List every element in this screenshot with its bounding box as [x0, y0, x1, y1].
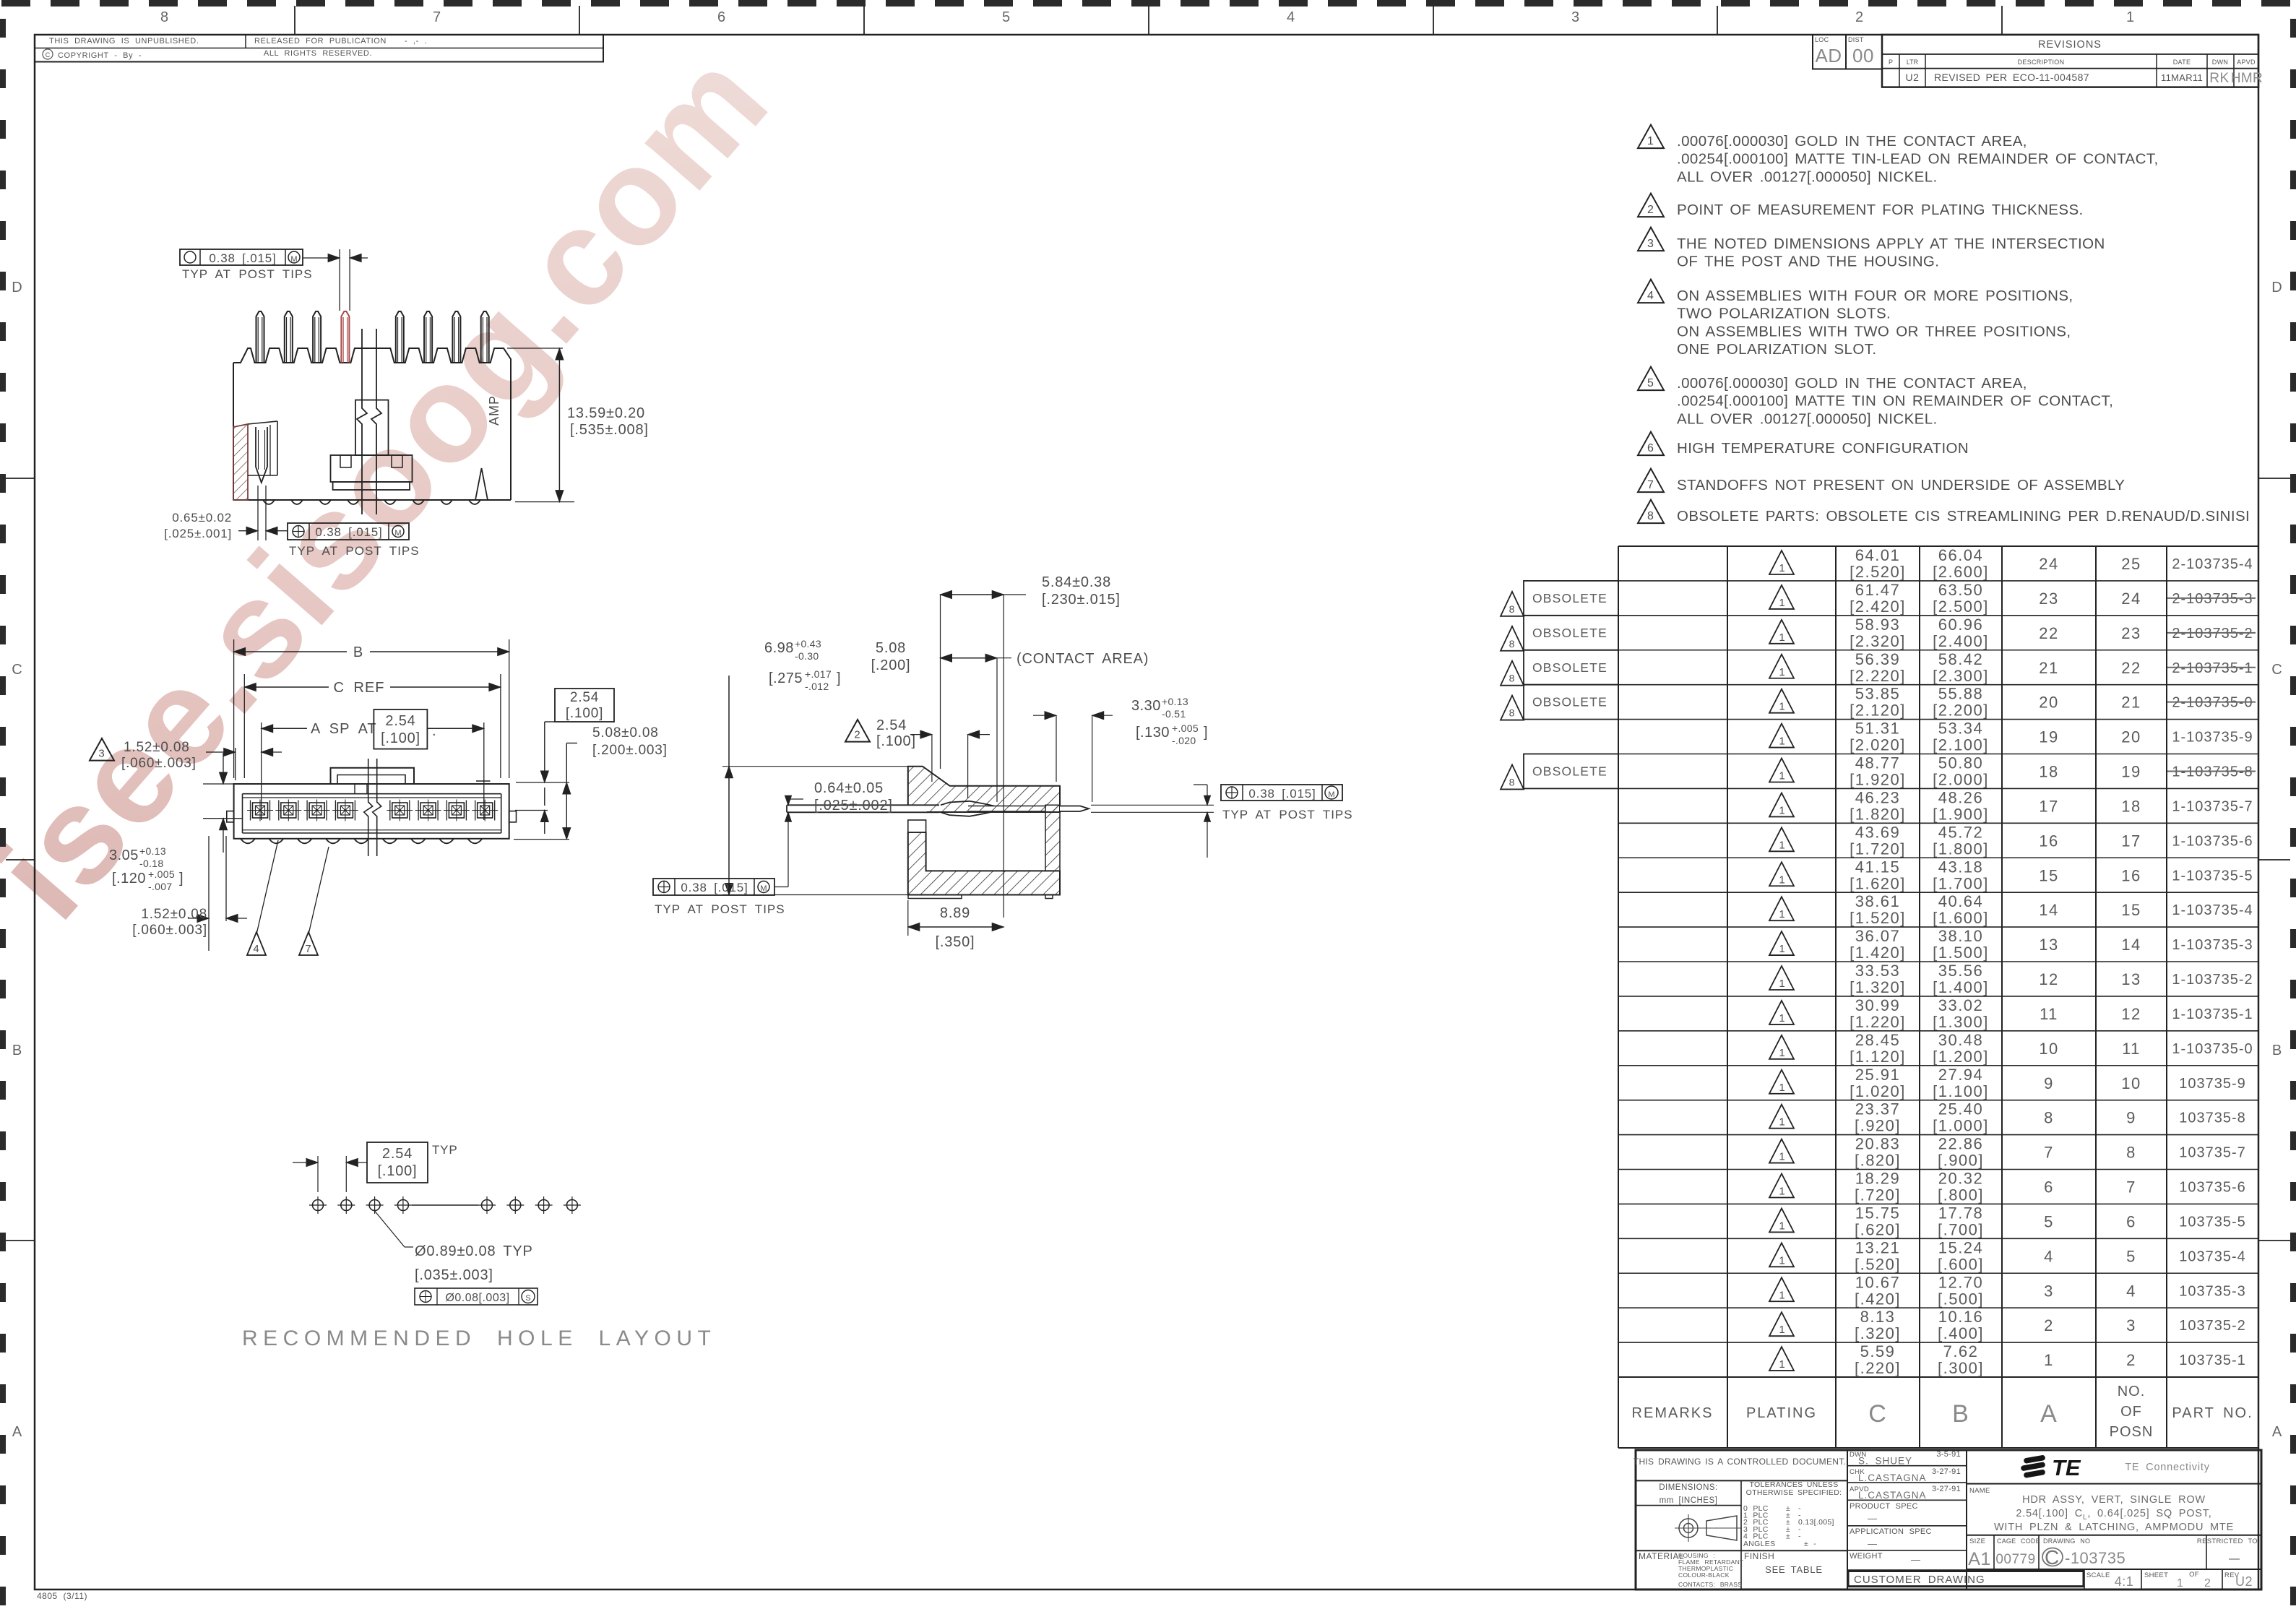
svg-text:B: B: [353, 644, 363, 660]
svg-text:23: 23: [2121, 624, 2141, 642]
svg-text:7: 7: [1647, 479, 1654, 491]
svg-text:33.53: 33.53: [1855, 962, 1901, 980]
svg-text:2: 2: [1855, 9, 1864, 25]
svg-text:M: M: [760, 884, 767, 893]
svg-text:A SP AT: A SP AT: [311, 721, 377, 737]
svg-text:15.75: 15.75: [1855, 1204, 1901, 1222]
svg-text:[.100]: [.100]: [566, 706, 603, 721]
svg-text:DIST: DIST: [1848, 36, 1864, 43]
svg-text:5.59: 5.59: [1860, 1342, 1896, 1360]
svg-text:8: 8: [2126, 1144, 2136, 1162]
svg-text:[2.200]: [2.200]: [1933, 702, 1989, 720]
svg-text:[2.220]: [2.220]: [1850, 667, 1906, 685]
svg-text:RESTRICTED TO: RESTRICTED TO: [2197, 1537, 2258, 1545]
svg-text:8: 8: [1509, 673, 1516, 684]
svg-text:A: A: [12, 1424, 22, 1440]
svg-text:1: 1: [1779, 1289, 1785, 1301]
svg-text:TWO POLARIZATION SLOTS.: TWO POLARIZATION SLOTS.: [1677, 306, 1891, 322]
svg-text:51.31: 51.31: [1855, 720, 1901, 738]
svg-text:17.78: 17.78: [1938, 1204, 1984, 1222]
svg-text:1.52±0.08: 1.52±0.08: [141, 907, 207, 922]
svg-text:[1.920]: [1.920]: [1850, 771, 1906, 789]
svg-text:23.37: 23.37: [1855, 1100, 1901, 1118]
svg-text:103735-2: 103735-2: [2179, 1318, 2246, 1334]
svg-text:53.34: 53.34: [1938, 720, 1984, 738]
svg-text:61.47: 61.47: [1855, 581, 1901, 599]
svg-text:103735-7: 103735-7: [2179, 1145, 2246, 1161]
svg-text:5.84±0.38: 5.84±0.38: [1042, 574, 1111, 590]
svg-text:-0.51: -0.51: [1162, 708, 1186, 720]
svg-text:18: 18: [2039, 763, 2058, 781]
svg-text:TYP AT POST TIPS: TYP AT POST TIPS: [655, 902, 785, 916]
svg-text:21: 21: [2121, 694, 2141, 712]
svg-text:10: 10: [2121, 1074, 2141, 1092]
svg-text:P: P: [1889, 59, 1893, 66]
svg-text:A: A: [2040, 1400, 2058, 1428]
svg-text:[1.320]: [1.320]: [1850, 978, 1906, 996]
svg-text:C: C: [12, 662, 22, 678]
svg-text:[.520]: [.520]: [1855, 1255, 1901, 1273]
svg-text:48.77: 48.77: [1855, 754, 1901, 772]
svg-text:+0.43: +0.43: [795, 638, 821, 650]
svg-text:AMP: AMP: [487, 395, 501, 426]
svg-text:36.07: 36.07: [1855, 927, 1901, 945]
svg-text:[1.500]: [1.500]: [1933, 944, 1989, 962]
svg-text:1: 1: [1779, 1358, 1785, 1371]
svg-text:REMARKS: REMARKS: [1632, 1405, 1714, 1421]
svg-text:-: -: [1798, 1532, 1801, 1540]
svg-text:[1.000]: [1.000]: [1933, 1117, 1989, 1135]
svg-text:103735-9: 103735-9: [2179, 1076, 2246, 1092]
svg-text:[1.620]: [1.620]: [1850, 874, 1906, 892]
svg-text:B: B: [2272, 1043, 2282, 1058]
svg-text:REVISIONS: REVISIONS: [2038, 39, 2102, 51]
svg-text:ALL RIGHTS RESERVED.: ALL RIGHTS RESERVED.: [264, 49, 372, 58]
svg-text:.00254[.000100] MATTE TIN-LEAD: .00254[.000100] MATTE TIN-LEAD ON REMAIN…: [1677, 151, 2159, 168]
svg-text:U2: U2: [2235, 1574, 2253, 1589]
svg-text:21: 21: [2039, 659, 2058, 677]
svg-text:1-103735-7: 1-103735-7: [2172, 798, 2253, 814]
svg-text:TYP: TYP: [432, 1143, 457, 1157]
svg-text:[2.600]: [2.600]: [1933, 563, 1989, 581]
svg-text:4805 (3/11): 4805 (3/11): [37, 1591, 87, 1601]
svg-text:12: 12: [2039, 970, 2058, 988]
svg-text:9: 9: [2044, 1074, 2054, 1092]
svg-text:3: 3: [1571, 9, 1580, 25]
svg-text:40.64: 40.64: [1938, 892, 1984, 910]
svg-text:10.67: 10.67: [1855, 1273, 1901, 1291]
svg-text:[.720]: [.720]: [1855, 1186, 1901, 1204]
svg-text:8.89: 8.89: [940, 905, 970, 921]
svg-text:103735-3: 103735-3: [2179, 1283, 2246, 1299]
svg-text:4: 4: [2044, 1247, 2054, 1265]
svg-text:22: 22: [2039, 624, 2058, 642]
svg-text:S: S: [525, 1294, 530, 1303]
svg-text:[.100]: [.100]: [876, 733, 916, 749]
svg-text:7: 7: [2126, 1178, 2136, 1196]
svg-text:TYP AT POST TIPS: TYP AT POST TIPS: [182, 267, 313, 281]
svg-text:10: 10: [2039, 1040, 2058, 1058]
svg-text:COPYRIGHT - By -: COPYRIGHT - By -: [58, 51, 142, 60]
svg-text:[1.100]: [1.100]: [1933, 1082, 1989, 1100]
svg-text:33.02: 33.02: [1938, 996, 1984, 1014]
svg-text:1: 1: [1779, 701, 1785, 713]
svg-text:NO.: NO.: [2118, 1384, 2146, 1399]
svg-text:[.500]: [.500]: [1938, 1290, 1984, 1308]
svg-text:1: 1: [1779, 1220, 1785, 1232]
svg-text:—: —: [2229, 1553, 2240, 1565]
svg-text:6.98: 6.98: [764, 640, 794, 656]
svg-text:13.21: 13.21: [1855, 1238, 1901, 1256]
svg-text:55.88: 55.88: [1938, 685, 1984, 703]
svg-text:SEE TABLE: SEE TABLE: [1765, 1564, 1823, 1575]
svg-text:SHEET: SHEET: [2144, 1571, 2168, 1579]
svg-text:5: 5: [2044, 1212, 2054, 1230]
svg-text:OF: OF: [2189, 1571, 2199, 1579]
svg-text:[1.300]: [1.300]: [1933, 1013, 1989, 1031]
svg-text:[.100]: [.100]: [378, 1163, 418, 1179]
svg-text:1: 1: [2126, 9, 2135, 25]
svg-text:27.94: 27.94: [1938, 1066, 1984, 1084]
svg-text:ANGLES: ANGLES: [1743, 1540, 1775, 1548]
svg-text:11: 11: [2122, 1040, 2141, 1058]
svg-text:8: 8: [1509, 638, 1516, 650]
svg-text:1: 1: [1779, 735, 1785, 748]
svg-text:8.13: 8.13: [1860, 1308, 1896, 1326]
svg-text:[1.820]: [1.820]: [1850, 805, 1906, 823]
svg-text:24: 24: [2039, 555, 2058, 573]
svg-text:ON ASSEMBLIES WITH TWO OR THRE: ON ASSEMBLIES WITH TWO OR THREE POSITION…: [1677, 323, 2071, 340]
svg-text:9: 9: [2126, 1109, 2136, 1127]
svg-text:+.005: +.005: [148, 868, 175, 880]
svg-text:103735-1: 103735-1: [2179, 1353, 2246, 1368]
svg-text:OBSOLETE: OBSOLETE: [1532, 660, 1607, 675]
svg-text:5.08: 5.08: [876, 640, 906, 656]
svg-text:15: 15: [2039, 866, 2058, 884]
svg-text:PLATING: PLATING: [1746, 1405, 1817, 1421]
svg-text:18: 18: [2121, 797, 2141, 815]
svg-text:1-103735-0: 1-103735-0: [2172, 1041, 2253, 1057]
svg-text:HDR ASSY, VERT, SINGLE ROW: HDR ASSY, VERT, SINGLE ROW: [2022, 1494, 2206, 1506]
svg-text:5: 5: [2126, 1247, 2136, 1265]
svg-text:25.91: 25.91: [1855, 1066, 1901, 1084]
svg-text:[.060±.003]: [.060±.003]: [132, 923, 207, 938]
svg-text:[1.720]: [1.720]: [1850, 840, 1906, 858]
svg-text:POINT OF MEASUREMENT FOR PLATI: POINT OF MEASUREMENT FOR PLATING THICKNE…: [1677, 202, 2084, 218]
svg-text:1: 1: [2044, 1351, 2054, 1369]
svg-text:mm [INCHES]: mm [INCHES]: [1660, 1496, 1718, 1505]
svg-text:0.38 [.015]: 0.38 [.015]: [315, 525, 382, 539]
svg-text:HMR: HMR: [2231, 71, 2263, 86]
svg-text:25: 25: [2121, 555, 2141, 573]
svg-text:30.99: 30.99: [1855, 996, 1901, 1014]
svg-text:4: 4: [253, 943, 259, 955]
svg-text:POSN: POSN: [2110, 1424, 2154, 1440]
svg-text:.00076[.000030] GOLD IN THE CO: .00076[.000030] GOLD IN THE CONTACT AREA…: [1677, 375, 2027, 392]
svg-text:WEIGHT: WEIGHT: [1850, 1552, 1883, 1561]
svg-text:12: 12: [2121, 1005, 2141, 1023]
svg-text:[1.800]: [1.800]: [1933, 840, 1989, 858]
svg-text:OTHERWISE SPECIFIED:: OTHERWISE SPECIFIED:: [1746, 1488, 1842, 1497]
svg-text:APPLICATION SPEC: APPLICATION SPEC: [1850, 1527, 1932, 1536]
svg-text:1-103735-2: 1-103735-2: [2172, 972, 2253, 988]
svg-text:3: 3: [2044, 1282, 2054, 1300]
svg-text:±: ±: [1786, 1532, 1791, 1540]
svg-text:CAGE CODE: CAGE CODE: [1997, 1537, 2040, 1545]
svg-text:41.15: 41.15: [1855, 858, 1901, 876]
svg-text:38.61: 38.61: [1855, 892, 1901, 910]
svg-text:(CONTACT AREA): (CONTACT AREA): [1017, 651, 1149, 667]
svg-text:3: 3: [98, 748, 105, 760]
svg-text:[2.420]: [2.420]: [1850, 598, 1906, 616]
svg-text:1: 1: [1779, 1082, 1785, 1094]
svg-text:16: 16: [2039, 832, 2058, 850]
svg-text:APVD: APVD: [2237, 59, 2256, 66]
svg-text:OBSOLETE: OBSOLETE: [1532, 764, 1607, 779]
svg-text:M: M: [290, 255, 297, 264]
svg-text:B: B: [1952, 1400, 1969, 1428]
svg-text:8: 8: [1647, 510, 1654, 522]
svg-text:20.83: 20.83: [1855, 1135, 1901, 1153]
svg-text:8: 8: [160, 9, 169, 25]
svg-text:PRODUCT SPEC: PRODUCT SPEC: [1850, 1502, 1918, 1511]
svg-text:[.130: [.130: [1136, 725, 1170, 741]
svg-text:[1.900]: [1.900]: [1933, 805, 1989, 823]
svg-text:OBSOLETE PARTS: OBSOLETE CIS S: OBSOLETE PARTS: OBSOLETE CIS STREAMLININ…: [1677, 508, 2250, 525]
svg-text:1.52±0.08: 1.52±0.08: [124, 740, 190, 755]
svg-text:ALL OVER .00127[.000050] NICKE: ALL OVER .00127[.000050] NICKEL.: [1677, 168, 1938, 185]
svg-text:17: 17: [2039, 797, 2058, 815]
svg-text:TYP AT POST TIPS: TYP AT POST TIPS: [1222, 808, 1353, 821]
svg-text:[.350]: [.350]: [936, 934, 975, 950]
svg-text:2: 2: [1647, 204, 1654, 216]
svg-text:-.020: -.020: [1172, 735, 1196, 746]
svg-text:[1.200]: [1.200]: [1933, 1048, 1989, 1066]
svg-text:1: 1: [1779, 631, 1785, 644]
svg-text:1-103735-9: 1-103735-9: [2172, 730, 2253, 746]
svg-text:20: 20: [2121, 728, 2141, 746]
svg-text:50.80: 50.80: [1938, 754, 1984, 772]
svg-text:48.26: 48.26: [1938, 788, 1984, 806]
svg-text:64.01: 64.01: [1855, 546, 1901, 564]
svg-text:.: .: [432, 723, 437, 739]
svg-text:4: 4: [1287, 9, 1295, 25]
svg-text:58.42: 58.42: [1938, 650, 1984, 668]
svg-text:7: 7: [433, 9, 441, 25]
svg-text:-103735: -103735: [2065, 1549, 2125, 1567]
svg-text:14: 14: [2039, 901, 2058, 919]
svg-text:M: M: [394, 529, 401, 538]
svg-text:[.320]: [.320]: [1855, 1324, 1901, 1342]
svg-text:DESCRIPTION: DESCRIPTION: [2018, 59, 2065, 66]
svg-text:+.017: +.017: [805, 668, 832, 680]
svg-text:[.200]: [.200]: [871, 657, 911, 673]
svg-text:0.38 [.015]: 0.38 [.015]: [681, 881, 748, 894]
svg-text:56.39: 56.39: [1855, 650, 1901, 668]
svg-text:—: —: [1868, 1538, 1878, 1549]
svg-text:.00254[.000100] MATTE TIN ON R: .00254[.000100] MATTE TIN ON REMAINDER O…: [1677, 393, 2113, 410]
svg-text:—: —: [1868, 1513, 1878, 1524]
svg-text:[.060±.003]: [.060±.003]: [121, 756, 197, 771]
svg-text:ONE POLARIZATION SLOT.: ONE POLARIZATION SLOT.: [1677, 341, 1876, 358]
svg-text:1: 1: [1779, 908, 1785, 920]
svg-text:12.70: 12.70: [1938, 1273, 1984, 1291]
svg-text:TE: TE: [2052, 1455, 2081, 1480]
svg-text:[2.400]: [2.400]: [1933, 632, 1989, 650]
svg-text:53.85: 53.85: [1855, 685, 1901, 703]
svg-text:00: 00: [1852, 45, 1874, 66]
svg-text:Ø0.08[.003]: Ø0.08[.003]: [445, 1292, 509, 1304]
svg-text:± -: ± -: [1804, 1540, 1816, 1548]
svg-text:[2.000]: [2.000]: [1933, 771, 1989, 789]
svg-text:1-103735-1: 1-103735-1: [2172, 1006, 2253, 1022]
svg-text:1: 1: [1779, 839, 1785, 851]
svg-text:7.62: 7.62: [1943, 1342, 1979, 1360]
svg-text:[1.520]: [1.520]: [1850, 909, 1906, 927]
svg-text:+0.13: +0.13: [1162, 696, 1188, 707]
svg-text:24: 24: [2121, 590, 2141, 608]
svg-text:19: 19: [2039, 728, 2058, 746]
svg-text:RK: RK: [2209, 71, 2229, 86]
svg-text:20: 20: [2039, 694, 2058, 712]
svg-text:[2.020]: [2.020]: [1850, 736, 1906, 754]
svg-text:13.59±0.20: 13.59±0.20: [567, 405, 645, 421]
svg-text:1: 1: [1779, 1324, 1785, 1336]
svg-text:3.30: 3.30: [1131, 698, 1161, 714]
svg-text:D: D: [12, 280, 22, 296]
svg-text:4:1: 4:1: [2115, 1574, 2134, 1589]
svg-text:35.56: 35.56: [1938, 962, 1984, 980]
svg-text:[1.700]: [1.700]: [1933, 874, 1989, 892]
svg-text:[.275: [.275: [769, 670, 803, 686]
svg-text:20.32: 20.32: [1938, 1170, 1984, 1188]
svg-text:1-103735-3: 1-103735-3: [2172, 937, 2253, 953]
svg-text:D: D: [2271, 280, 2282, 296]
svg-text:[2.520]: [2.520]: [1850, 563, 1906, 581]
svg-text:A1: A1: [1968, 1549, 1991, 1569]
svg-text:L.CASTAGNA: L.CASTAGNA: [1858, 1472, 1927, 1483]
svg-text:THIS DRAWING IS UNPUBLISHED.: THIS DRAWING IS UNPUBLISHED.: [49, 37, 199, 46]
svg-text:3: 3: [2126, 1316, 2136, 1334]
svg-text:43.69: 43.69: [1855, 823, 1901, 841]
svg-text:DATE: DATE: [2173, 59, 2191, 66]
svg-text:STANDOFFS NOT PRESENT ON UNDER: STANDOFFS NOT PRESENT ON UNDERSIDE OF AS…: [1677, 477, 2125, 493]
svg-text:0.13[.005]: 0.13[.005]: [1798, 1518, 1834, 1527]
svg-text:CONTACTS: BRASS: CONTACTS: BRASS: [1678, 1581, 1742, 1588]
svg-text:[2.120]: [2.120]: [1850, 702, 1906, 720]
svg-text:DRAWING NO: DRAWING NO: [2043, 1537, 2090, 1545]
svg-text:ON ASSEMBLIES WITH FOUR OR MOR: ON ASSEMBLIES WITH FOUR OR MORE POSITION…: [1677, 288, 2073, 304]
svg-text:+.005: +.005: [1172, 722, 1199, 734]
svg-text:2.54: 2.54: [382, 1146, 413, 1162]
svg-text:[1.120]: [1.120]: [1850, 1048, 1906, 1066]
svg-text:U2: U2: [1906, 72, 1920, 83]
svg-text:[1.420]: [1.420]: [1850, 944, 1906, 962]
svg-text:[.035±.003]: [.035±.003]: [415, 1267, 493, 1283]
svg-text:[2.300]: [2.300]: [1933, 667, 1989, 685]
svg-text:43.18: 43.18: [1938, 858, 1984, 876]
svg-text:1: 1: [1779, 1254, 1785, 1267]
svg-text:0.64±0.05: 0.64±0.05: [814, 780, 884, 796]
svg-text:2-103735-4: 2-103735-4: [2172, 556, 2253, 572]
svg-text:OBSOLETE: OBSOLETE: [1532, 591, 1607, 605]
svg-text:B: B: [12, 1043, 22, 1058]
svg-text:[.230±.015]: [.230±.015]: [1042, 592, 1121, 608]
svg-text:1: 1: [1779, 978, 1785, 990]
svg-text:LOC: LOC: [1815, 36, 1829, 43]
svg-text:REVISED PER ECO-11-004587: REVISED PER ECO-11-004587: [1934, 72, 2089, 83]
svg-text:6: 6: [1647, 442, 1654, 454]
svg-text:28.45: 28.45: [1855, 1031, 1901, 1049]
svg-text:13: 13: [2039, 936, 2058, 954]
svg-text:TYP AT POST TIPS: TYP AT POST TIPS: [289, 544, 420, 558]
svg-text:HIGH TEMPERATURE CONFIGURATION: HIGH TEMPERATURE CONFIGURATION: [1677, 440, 1969, 457]
svg-text:]: ]: [179, 871, 184, 887]
svg-text:1: 1: [1647, 135, 1654, 147]
svg-text:WITH PLZN & LATCHING, AMPMODU: WITH PLZN & LATCHING, AMPMODU MTE: [1994, 1522, 2234, 1533]
svg-text:[.800]: [.800]: [1938, 1186, 1984, 1204]
svg-text:4: 4: [2126, 1282, 2136, 1300]
svg-text:Ø0.89±0.08 TYP: Ø0.89±0.08 TYP: [415, 1243, 533, 1259]
svg-text:[.300]: [.300]: [1938, 1359, 1984, 1377]
svg-text:]: ]: [837, 670, 841, 686]
svg-text:1: 1: [1779, 1012, 1785, 1024]
svg-text:1: 1: [2177, 1577, 2184, 1589]
svg-text:[1.220]: [1.220]: [1850, 1013, 1906, 1031]
svg-text:23: 23: [2039, 590, 2058, 608]
svg-text:5: 5: [1647, 377, 1654, 389]
svg-text:[1.020]: [1.020]: [1850, 1082, 1906, 1100]
svg-text:19: 19: [2121, 763, 2141, 781]
svg-text:[.025±.001]: [.025±.001]: [164, 527, 232, 540]
svg-text:[.920]: [.920]: [1855, 1117, 1901, 1135]
svg-text:[.620]: [.620]: [1855, 1220, 1901, 1238]
svg-text:]: ]: [1204, 725, 1208, 741]
svg-text:[1.600]: [1.600]: [1933, 909, 1989, 927]
svg-text:2: 2: [2044, 1316, 2054, 1334]
svg-text:- ,- .: - ,- .: [405, 37, 427, 46]
svg-text:2: 2: [854, 729, 860, 741]
svg-text:1: 1: [1779, 666, 1785, 678]
svg-text:6: 6: [717, 9, 726, 25]
svg-text:MATERIAL: MATERIAL: [1639, 1551, 1684, 1561]
svg-text:[.600]: [.600]: [1938, 1255, 1984, 1273]
svg-text:13: 13: [2121, 970, 2141, 988]
svg-text:C: C: [2271, 662, 2282, 678]
svg-text:11MAR11: 11MAR11: [2161, 72, 2203, 83]
svg-text:OF THE POST AND THE HOUSING.: OF THE POST AND THE HOUSING.: [1677, 254, 1939, 270]
svg-text:16: 16: [2121, 866, 2141, 884]
svg-text:1-103735-6: 1-103735-6: [2172, 833, 2253, 849]
svg-text:6: 6: [2126, 1212, 2136, 1230]
svg-text:OBSOLETE: OBSOLETE: [1532, 695, 1607, 709]
svg-text:0.38 [.015]: 0.38 [.015]: [1248, 787, 1316, 801]
svg-text:COLOUR-BLACK: COLOUR-BLACK: [1678, 1571, 1730, 1579]
svg-text:[.120: [.120: [112, 871, 146, 887]
svg-text:DIMENSIONS:: DIMENSIONS:: [1659, 1483, 1718, 1492]
svg-text:[.025±.002]: [.025±.002]: [814, 798, 893, 814]
svg-text:8: 8: [1509, 776, 1516, 788]
svg-text:00779: 00779: [1995, 1552, 2035, 1567]
svg-text:1-103735-5: 1-103735-5: [2172, 868, 2253, 884]
svg-text:A: A: [2272, 1424, 2282, 1440]
svg-text:3.05: 3.05: [109, 847, 139, 863]
svg-text:30.48: 30.48: [1938, 1031, 1984, 1049]
svg-text:+0.13: +0.13: [139, 845, 166, 857]
svg-text:17: 17: [2121, 832, 2141, 850]
svg-text:8: 8: [2044, 1109, 2054, 1127]
svg-text:[1.400]: [1.400]: [1933, 978, 1989, 996]
